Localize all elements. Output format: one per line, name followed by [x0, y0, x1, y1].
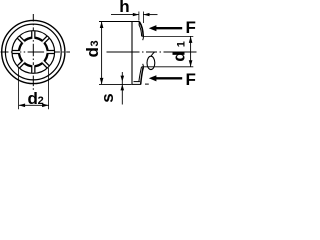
svg-text:d: d [28, 89, 38, 108]
svg-text:s: s [98, 93, 117, 102]
svg-text:F: F [186, 18, 196, 37]
svg-text:d: d [170, 51, 189, 61]
svg-text:F: F [186, 70, 196, 89]
svg-text:h: h [119, 0, 129, 16]
svg-text:2: 2 [38, 95, 44, 107]
svg-text:d: d [83, 47, 102, 57]
svg-text:3: 3 [89, 40, 101, 46]
svg-text:1: 1 [176, 41, 188, 47]
